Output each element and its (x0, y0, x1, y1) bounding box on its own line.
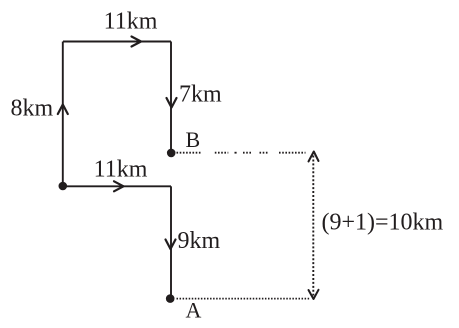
svg-text:A: A (186, 298, 202, 323)
dotted construction line from A to measuring arrow (177, 298, 311, 300)
dotted construction line from B (segment 2) (215, 152, 229, 154)
svg-text:11km: 11km (94, 157, 148, 183)
svg-text:B: B (186, 127, 201, 152)
dotted construction line from B (segment 4) (243, 152, 252, 154)
wire: left vertical 8km leg (62, 42, 64, 187)
arrowhead: upward on 8km leg (58, 105, 68, 115)
wire: middle horizontal 11km leg (63, 185, 171, 187)
node A (166, 294, 175, 303)
node B (167, 149, 176, 158)
dotted construction line from B (segment 6) (279, 152, 306, 154)
arrowhead: rightward on middle 11km leg (114, 181, 124, 191)
dotted construction line from B (segment 5) (260, 152, 269, 154)
wire: lower vertical 9km leg (170, 186, 172, 298)
arrowhead: rightward on top 11km leg (132, 37, 142, 47)
dotted construction line from B (segment 3, single dot) (235, 152, 237, 154)
svg-text:8km: 8km (11, 96, 54, 122)
wire: top horizontal 11km leg (63, 41, 171, 43)
svg-text:(9+1)=10km: (9+1)=10km (322, 210, 444, 236)
wire: right vertical 7km leg (170, 42, 172, 153)
svg-text:9km: 9km (178, 228, 221, 254)
svg-text:11km: 11km (104, 9, 158, 35)
arrowhead: downward on 7km leg (167, 98, 177, 108)
dotted vertical measuring line (312, 156, 314, 296)
arrowhead: upward tip of measuring arrow (309, 152, 319, 162)
node origin (start point) (59, 182, 68, 191)
svg-text:7km: 7km (179, 82, 222, 108)
arrowhead: downward tip of measuring arrow (309, 290, 319, 299)
arrowhead: downward on 9km leg (166, 240, 176, 250)
dotted construction line from B (segment 1) (177, 152, 202, 154)
